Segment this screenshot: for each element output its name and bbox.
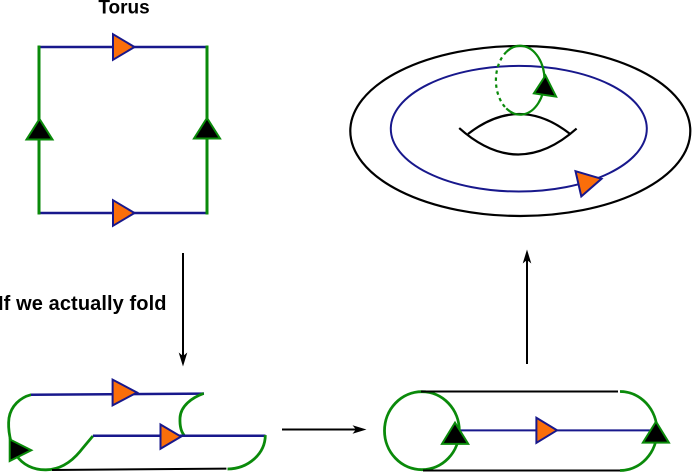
svg-text:If we actually fold: If we actually fold [0, 293, 167, 315]
svg-text:Torus: Torus [98, 0, 149, 18]
